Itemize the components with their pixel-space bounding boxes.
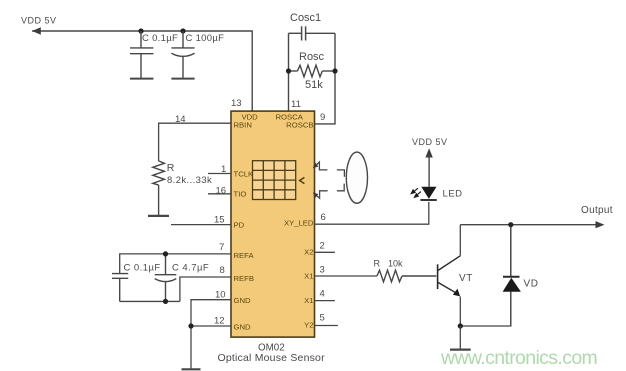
svg-text:VD: VD (524, 279, 539, 290)
svg-text:12: 12 (214, 316, 225, 327)
capacitor C3 0.1uF (112, 274, 128, 302)
junction dot output/VD (508, 222, 513, 227)
resistor Rosc 51k (289, 65, 336, 77)
wire pin4 X1 stub (315, 300, 335, 302)
svg-text:X2: X2 (304, 247, 313, 256)
wire bottom of cap loop (120, 300, 180, 302)
pin stubs left (120, 123, 231, 369)
LED D1 (421, 187, 436, 199)
wire bottom rail VT/VD (460, 292, 511, 326)
capacitor C1 0.1uF (130, 31, 153, 79)
wire pin10 GND (191, 300, 231, 370)
svg-text:REFB: REFB (234, 274, 255, 283)
svg-text:TCLK: TCLK (234, 169, 255, 178)
wire right vertical ROSCB (315, 33, 336, 124)
svg-text:ROSCB: ROSCB (286, 120, 313, 129)
svg-text:Rosc: Rosc (299, 51, 325, 63)
lens ellipse (346, 152, 367, 203)
wire left vertical ROSCA (288, 33, 290, 111)
wire LED to XY_LED pin6 (315, 202, 429, 224)
svg-text:13: 13 (231, 98, 242, 109)
node VDD rail top-left (32, 31, 252, 111)
wire VDD to LED (428, 155, 430, 187)
wire pin16 TIO stub (208, 193, 231, 195)
svg-text:VDD 5V: VDD 5V (21, 16, 57, 26)
capacitor C2 100uF polarized (171, 31, 194, 79)
svg-text:XY_LED: XY_LED (284, 218, 314, 227)
svg-text:C 4.7µF: C 4.7µF (172, 262, 209, 273)
light ray bottom (314, 184, 344, 199)
wire emitter down (459, 297, 461, 327)
junction dot cap top (163, 251, 168, 256)
op IC U1 OM02 body (231, 111, 315, 337)
svg-text:GND: GND (234, 323, 252, 332)
svg-text:RBIN: RBIN (234, 120, 252, 129)
svg-text:Y2: Y2 (304, 320, 313, 329)
svg-text:10: 10 (215, 290, 226, 301)
resistor R 8.2k-33k (148, 161, 169, 216)
mark < inside IC (300, 177, 305, 183)
arrow VDD left (32, 27, 41, 34)
transistor VT npn (438, 256, 461, 294)
svg-text:3: 3 (320, 265, 325, 276)
pin stubs right (315, 252, 378, 325)
svg-text:Optical Mouse Sensor: Optical Mouse Sensor (218, 352, 326, 364)
wire pin7 REFA (120, 254, 231, 274)
wire pin15 PD stub (171, 224, 231, 226)
ground bar under IC (182, 368, 201, 370)
junction dot emitter rail (458, 323, 463, 328)
svg-text:7: 7 (219, 242, 224, 253)
wire collector up (459, 225, 461, 256)
resistor R2 10k (377, 270, 436, 282)
ground bar right (450, 349, 471, 351)
diode VD (503, 225, 520, 326)
svg-text:R: R (374, 258, 381, 268)
capacitor Cosc1 (302, 26, 306, 40)
svg-text:15: 15 (214, 215, 225, 226)
junction dot Rosc left (286, 68, 291, 73)
svg-text:REFA: REFA (234, 251, 255, 260)
capacitor C4 4.7uF polarized (120, 254, 180, 302)
LED emission arrows (411, 188, 421, 197)
wire pin14 to R (159, 123, 231, 161)
junction dot Rosc right (332, 68, 337, 73)
svg-text:X1: X1 (304, 272, 313, 281)
svg-text:C 0.1µF: C 0.1µF (124, 262, 161, 273)
svg-text:X1: X1 (304, 296, 313, 305)
svg-text:VT: VT (459, 273, 473, 284)
arrow VDD up (425, 148, 432, 157)
IC pin labels (234, 113, 314, 332)
junction dot cap bottom (163, 299, 168, 304)
svg-text:11: 11 (291, 99, 301, 110)
svg-text:8.2k...33k: 8.2k...33k (167, 175, 212, 186)
svg-text:www.cntronics.com: www.cntronics.com (440, 347, 597, 369)
net Output (460, 224, 599, 226)
svg-text:LED: LED (443, 189, 463, 200)
wire pin5 Y2 stub (315, 325, 338, 327)
sensor grid (253, 161, 296, 200)
oscillator loop wires (289, 33, 336, 124)
svg-text:6: 6 (321, 212, 326, 223)
wire cap to top right (306, 32, 335, 34)
wire (32, 31, 252, 111)
wire pin3 X1 to R10k (315, 275, 378, 277)
svg-text:GND: GND (234, 296, 252, 305)
svg-text:VDD 5V: VDD 5V (412, 137, 448, 147)
junction dot C1 (138, 28, 143, 33)
svg-text:R: R (167, 162, 175, 174)
wire to ground (459, 326, 461, 349)
wire pin2 X2 stub (315, 251, 335, 253)
svg-text:5: 5 (320, 313, 325, 324)
svg-text:C 100µF: C 100µF (186, 33, 225, 44)
svg-text:51k: 51k (305, 79, 323, 91)
junction dot C2 (180, 28, 185, 33)
pin numbers (175, 98, 326, 327)
wire pin12 GND (191, 325, 231, 327)
svg-text:TIO: TIO (234, 190, 247, 199)
wire pin1 TCLK stub (208, 173, 231, 175)
svg-text:16: 16 (216, 186, 227, 197)
svg-text:Output: Output (581, 205, 613, 216)
svg-text:2: 2 (320, 241, 325, 252)
wire pin8 REFB (180, 277, 231, 301)
svg-text:9: 9 (320, 112, 325, 123)
svg-text:10k: 10k (388, 258, 403, 268)
wire top left to cap (289, 32, 302, 34)
svg-text:Cosc1: Cosc1 (290, 12, 321, 24)
junction dot pin12 (188, 323, 193, 328)
svg-text:C 0.1µF: C 0.1µF (142, 33, 178, 44)
svg-text:4: 4 (320, 289, 325, 300)
svg-text:8: 8 (220, 265, 225, 276)
light ray top (314, 162, 344, 177)
svg-text:PD: PD (234, 220, 245, 229)
